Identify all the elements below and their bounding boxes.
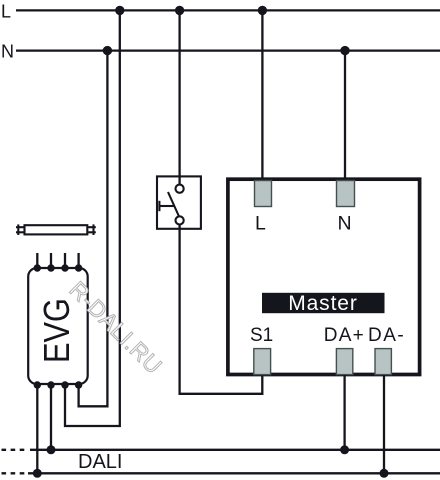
push-button S1 actuator: [158, 201, 160, 211]
wire: push-button to Master S1 terminal: [180, 225, 263, 394]
svg-text:N: N: [1, 42, 14, 62]
junction: N tap for EVG: [103, 46, 112, 55]
push-button S1 box: [157, 176, 201, 228]
junction: DA- on DALI lower line: [380, 469, 389, 478]
wire: L drop to EVG pin 3: [65, 10, 120, 426]
wire: EVG pin 2 to DALI upper line: [50, 385, 52, 450]
lamp LA1 (fluorescent tube): [16, 224, 96, 235]
EVG top pin 1: [34, 264, 41, 271]
ballast EVG box: [28, 268, 87, 384]
push-button S1 lever: [168, 192, 179, 216]
DALI bus upper line continuation (dashed): [2, 449, 29, 451]
junction: L tap for Master: [258, 6, 267, 15]
wire: L drop to Master L terminal: [261, 10, 263, 182]
svg-text:L: L: [255, 213, 266, 235]
master controller U1 box: [228, 179, 420, 374]
EVG bottom pin 1: [34, 381, 41, 388]
DALI bus lower line: [28, 472, 440, 474]
EVG top pin 4: [75, 264, 82, 271]
wire: mains line N: [16, 49, 440, 51]
wire: EVG pin 1 to DALI lower line: [36, 385, 38, 473]
EVG bottom pin 3: [61, 381, 68, 388]
push-button S1 upper contact: [176, 185, 184, 193]
wire: L drop to push-button S1: [178, 10, 180, 185]
junction: L tap for EVG: [115, 6, 124, 15]
svg-text:EVG: EVG: [36, 298, 77, 363]
svg-text:DA-: DA-: [368, 325, 405, 346]
EVG bottom pin 2: [47, 381, 54, 388]
terminal DA- of Master: [375, 349, 391, 375]
wire: N drop to EVG pin 4: [79, 51, 108, 407]
wire: mains line L: [16, 9, 440, 11]
EVG top pin 3: [61, 264, 68, 271]
svg-text:S1: S1: [250, 325, 273, 346]
junction: EVG pin 1 on DALI lower line: [33, 469, 42, 478]
terminal L of Master: [255, 181, 272, 207]
wire: DA- to DALI bus: [383, 375, 385, 473]
svg-text:DALI: DALI: [78, 451, 122, 473]
EVG bottom pin 4: [75, 381, 82, 388]
svg-text:Master: Master: [288, 292, 358, 315]
DALI bus upper line: [30, 449, 440, 451]
Master name plate: [262, 292, 385, 315]
terminal N of Master: [337, 181, 355, 207]
junction: N tap for Master: [340, 46, 349, 55]
svg-text:N: N: [338, 213, 352, 235]
wire: DA+ to DALI bus: [343, 375, 345, 450]
lamp lead stub pin 2: [50, 253, 52, 268]
wire: N drop to Master N terminal: [344, 51, 346, 182]
junction: DA+ on DALI upper line: [340, 445, 349, 454]
lamp lead stub pin 3: [64, 253, 66, 268]
svg-text:L: L: [1, 2, 11, 22]
lamp lead stub pin 1: [36, 253, 38, 268]
push-button S1 lower contact: [176, 216, 184, 224]
lamp lead stub pin 4: [77, 253, 79, 268]
svg-text:DA+: DA+: [324, 325, 365, 346]
terminal DA+ of Master: [336, 349, 352, 375]
DALI bus lower line continuation (dashed): [2, 472, 27, 474]
junction: L tap for push-button: [175, 6, 184, 15]
junction: EVG pin 2 on DALI upper line: [47, 445, 56, 454]
EVG top pin 2: [47, 264, 54, 271]
terminal S1 of Master: [254, 349, 271, 375]
